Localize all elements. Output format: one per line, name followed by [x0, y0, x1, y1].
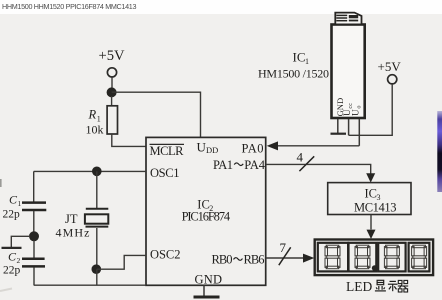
+5V supply label (left) [99, 48, 126, 64]
svg-text:1: 1 [305, 57, 309, 66]
wire rail to C1 [33, 171, 35, 201]
svg-text:PA0: PA0 [242, 142, 264, 156]
sensor Ucc pin wire [348, 119, 350, 135]
digit 8 (2) [355, 245, 370, 269]
junction dot B (crystal top) [92, 167, 102, 177]
wire junction D to ground rail [96, 269, 98, 285]
bus width label 4 [297, 150, 304, 165]
LED display outer box [315, 240, 433, 276]
svg-text:MC1413: MC1413 [354, 201, 397, 215]
scan artifact bottom-left smudge [0, 289, 12, 292]
crystal JT plates and body [85, 209, 108, 227]
bus slash (7 lines) [279, 247, 291, 265]
svg-text:PIC16F874: PIC16F874 [182, 210, 231, 224]
+5V terminal circle (right) [388, 75, 397, 84]
svg-text:RB0: RB0 [212, 253, 233, 267]
caption part numbers [2, 2, 136, 11]
LED digit module 3 [378, 243, 405, 272]
svg-text:OSC1: OSC1 [150, 166, 180, 180]
wire RB0~RB6 bus to display [266, 257, 304, 259]
capacitor C1 value 22p [3, 209, 21, 221]
capacitor C1 label [9, 193, 22, 209]
crystal value 4MHz [56, 226, 90, 240]
wire GND pin stub [203, 285, 205, 295]
junction dot A (+5V rail) [107, 87, 117, 97]
sensor pin label Ucc (rotated) [342, 103, 354, 116]
driver IC3 box [328, 183, 411, 215]
svg-text:+5V: +5V [99, 48, 126, 64]
wire junction A to resistor R1 [111, 96, 113, 106]
IC3 designator [365, 187, 381, 203]
wire C2 to ground rail [33, 267, 35, 285]
sensor IC1 top grille cap [335, 13, 361, 24]
capacitor C2 label [8, 250, 21, 266]
svg-text:IC: IC [293, 50, 306, 65]
pin UDD [197, 140, 219, 156]
svg-text:10k: 10k [86, 123, 104, 137]
svg-text:HM1500 /1520: HM1500 /1520 [258, 67, 329, 81]
capacitor C2 value 22p [3, 265, 21, 277]
wire +5V right to Ucc [349, 84, 393, 135]
pin GND [195, 273, 223, 287]
arrowhead into display top [367, 230, 376, 239]
wire C1 to junction C [33, 211, 35, 232]
svg-text:+5V: +5V [378, 59, 402, 74]
sensor IC1 body box [332, 25, 365, 119]
sensor IC1 designator [293, 50, 310, 67]
svg-text:22p: 22p [3, 265, 21, 277]
wire junction A to UDD pin [112, 92, 201, 137]
resistor R1 label [88, 108, 101, 124]
svg-text:4MHz: 4MHz [56, 226, 90, 240]
svg-text:OSC2: OSC2 [150, 248, 181, 262]
arrowhead into display left [303, 254, 314, 263]
IC2 part number PIC16F874 [182, 210, 231, 224]
pin MCLR (with overline) [150, 144, 185, 158]
svg-text:HHM1500 HHM1520 PPIC16F874 MMC: HHM1500 HHM1520 PPIC16F874 MMC1413 [2, 2, 136, 11]
capacitor C1 plates [22, 203, 46, 210]
+5V terminal circle (left) [107, 68, 116, 77]
LED digit module 2 [349, 243, 377, 272]
svg-text:IC: IC [365, 187, 378, 201]
scan artifact left edge speck [0, 179, 2, 187]
sensor pin label Uo (rotated) [351, 105, 363, 116]
pin OSC2 [150, 248, 181, 262]
wire terminal to junction [111, 77, 113, 87]
svg-text:cc: cc [347, 103, 354, 109]
svg-text:o: o [356, 105, 363, 108]
resistor R1 value 10k [86, 123, 104, 137]
digit 8 (4) [412, 245, 427, 269]
LED digit module 1 [318, 243, 348, 272]
arrowhead into PA0 [267, 141, 278, 150]
ground symbol (oscillator) [2, 236, 31, 248]
wire junction B to crystal [96, 171, 98, 208]
wire OSC2 to junction D [97, 255, 146, 269]
sensor pin label GND (rotated) [335, 98, 345, 117]
wire Uo to PA0 [276, 145, 359, 147]
svg-text:1: 1 [18, 199, 22, 208]
ground symbol (sensor) [331, 133, 347, 135]
svg-text:PA4: PA4 [244, 158, 265, 172]
capacitor C2 plates [22, 259, 45, 267]
svg-text:U: U [351, 109, 361, 116]
wire crystal to junction D [96, 228, 98, 269]
wire PA1~PA4 bus to IC3 [266, 164, 371, 173]
svg-text:GND: GND [195, 273, 223, 287]
svg-text:PA1: PA1 [213, 158, 233, 172]
digit 8 (3) [384, 245, 399, 269]
bus width label 7 [280, 240, 287, 255]
svg-text:JT: JT [65, 212, 78, 226]
sensor Uo pin wire [358, 119, 360, 146]
display caption 示 glyph [388, 281, 398, 291]
wire IC3 to display [370, 215, 372, 230]
wire R1 to MCLR pin [112, 134, 146, 146]
decimal point [372, 265, 378, 271]
display caption 显 glyph [375, 280, 386, 291]
svg-text:LED: LED [346, 279, 372, 294]
ground symbol (IC2 GND) [194, 296, 220, 299]
svg-text:DD: DD [206, 145, 218, 155]
wire OSC1 to oscillator rail [34, 170, 146, 172]
pin PA1~PA4 [213, 158, 266, 172]
svg-text:U: U [197, 140, 207, 155]
LED digit module 4 [409, 243, 430, 272]
svg-text:7: 7 [280, 240, 287, 255]
scan artifact blue strip [437, 111, 442, 192]
bus slash (4 lines) [299, 156, 314, 171]
junction dot D (crystal bottom) [92, 264, 102, 274]
pin PA0 [242, 142, 264, 156]
junction dot C (between C1 C2) [29, 231, 39, 241]
svg-text:22p: 22p [3, 209, 21, 221]
sensor GND pin wire [337, 119, 339, 133]
digit 8 (1) [325, 245, 340, 269]
svg-text:MCLR: MCLR [150, 144, 185, 158]
svg-text:4: 4 [297, 150, 304, 165]
pin OSC1 [150, 166, 180, 180]
crystal JT label [65, 212, 78, 226]
resistor R1 body [107, 106, 117, 134]
arrowhead into IC3 [366, 173, 375, 182]
op IC2 PIC16F874 box [146, 137, 266, 285]
IC3 part number MC1413 [354, 201, 397, 215]
svg-text:R: R [88, 108, 97, 122]
display caption LED [346, 279, 372, 294]
svg-text:RB6: RB6 [244, 253, 265, 267]
pin RB0~RB6 [212, 253, 265, 267]
+5V supply label (right) [378, 59, 402, 74]
IC2 designator [197, 198, 213, 214]
wire junction C to C2 [33, 241, 35, 258]
sensor IC1 part number HM1500/1520 [258, 67, 329, 81]
ground rail wire [34, 284, 146, 286]
display caption 器 glyph [398, 280, 408, 292]
